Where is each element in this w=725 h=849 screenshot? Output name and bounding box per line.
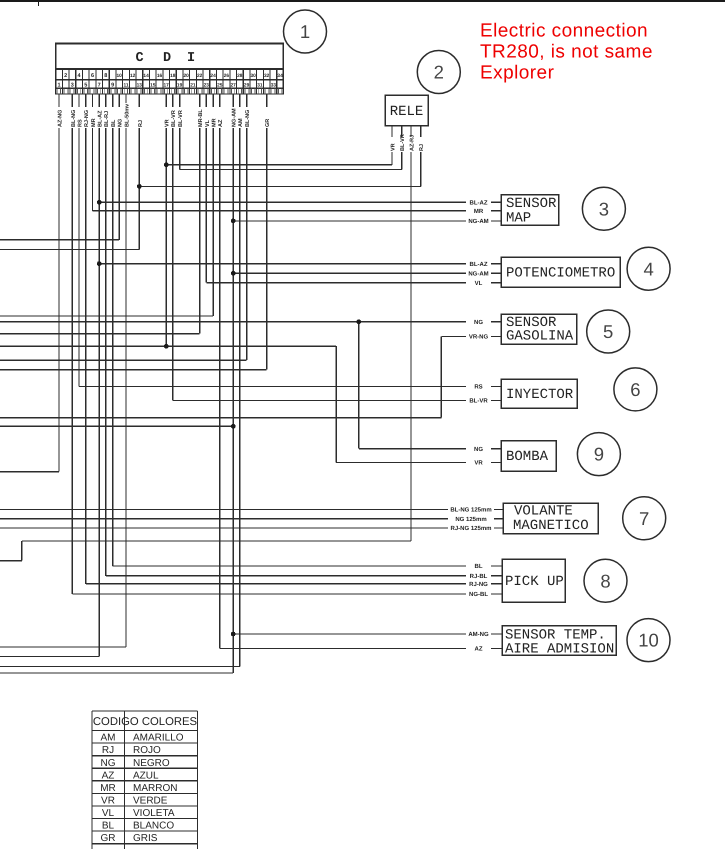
svg-text:RJ: RJ xyxy=(138,120,144,127)
svg-text:AM-NG: AM-NG xyxy=(468,631,489,638)
svg-text:MR-BL: MR-BL xyxy=(198,109,204,127)
svg-text:MR: MR xyxy=(474,208,484,215)
svg-text:VIOLETA: VIOLETA xyxy=(133,808,175,819)
svg-text:24: 24 xyxy=(210,73,216,79)
svg-text:VOLANTE: VOLANTE xyxy=(514,504,573,520)
svg-text:BL-AZ: BL-AZ xyxy=(470,200,488,207)
svg-text:22: 22 xyxy=(197,73,203,79)
svg-text:AZ: AZ xyxy=(102,770,115,781)
svg-text:MAGNETICO: MAGNETICO xyxy=(513,518,589,534)
svg-text:27: 27 xyxy=(231,83,237,89)
svg-text:AM: AM xyxy=(238,118,244,127)
svg-text:3: 3 xyxy=(71,83,74,89)
svg-text:VL: VL xyxy=(475,280,483,287)
svg-text:34: 34 xyxy=(277,73,283,79)
svg-text:NG: NG xyxy=(474,319,483,326)
svg-text:MARRON: MARRON xyxy=(133,783,177,794)
svg-text:RS: RS xyxy=(474,384,482,391)
svg-text:MR: MR xyxy=(91,118,97,127)
svg-text:MAP: MAP xyxy=(506,210,531,226)
svg-text:19: 19 xyxy=(177,83,183,89)
svg-text:BLANCO: BLANCO xyxy=(133,821,174,832)
svg-text:32: 32 xyxy=(264,73,270,79)
svg-text:MR: MR xyxy=(100,783,116,794)
svg-text:GR: GR xyxy=(101,833,116,844)
svg-text:BL: BL xyxy=(102,821,115,832)
svg-text:2: 2 xyxy=(434,62,444,83)
svg-text:7: 7 xyxy=(639,508,649,529)
svg-text:GR: GR xyxy=(265,119,271,127)
svg-text:NEGRO: NEGRO xyxy=(133,758,170,769)
svg-text:VR-NG: VR-NG xyxy=(469,334,489,341)
svg-text:AIRE ADMISION: AIRE ADMISION xyxy=(505,641,614,657)
svg-text:4: 4 xyxy=(643,258,653,279)
svg-text:12: 12 xyxy=(130,73,136,79)
svg-text:NG: NG xyxy=(474,446,483,453)
svg-text:GASOLINA: GASOLINA xyxy=(506,329,574,345)
svg-text:1: 1 xyxy=(300,21,310,42)
svg-text:BL-50mv: BL-50mv xyxy=(124,103,130,127)
svg-text:9: 9 xyxy=(111,83,114,89)
svg-text:NG: NG xyxy=(101,758,116,769)
svg-text:AZ: AZ xyxy=(218,119,224,127)
svg-text:NG-BL: NG-BL xyxy=(469,591,488,598)
svg-text:BL-AZ: BL-AZ xyxy=(98,110,104,127)
svg-text:BL-NG: BL-NG xyxy=(71,110,77,127)
svg-text:NG-AM: NG-AM xyxy=(232,108,238,127)
svg-text:VR: VR xyxy=(165,119,171,127)
svg-text:31: 31 xyxy=(257,83,263,89)
svg-text:15: 15 xyxy=(150,83,156,89)
svg-text:RJ-NG: RJ-NG xyxy=(84,110,90,127)
svg-text:21: 21 xyxy=(190,83,196,89)
svg-text:BL-VR: BL-VR xyxy=(400,134,406,151)
svg-text:AM: AM xyxy=(101,733,116,744)
svg-text:1: 1 xyxy=(57,83,60,89)
svg-text:30: 30 xyxy=(251,73,257,79)
svg-text:17: 17 xyxy=(164,83,170,89)
svg-text:AZ: AZ xyxy=(475,646,483,653)
svg-text:GRIS: GRIS xyxy=(133,833,158,844)
svg-text:VR: VR xyxy=(390,143,396,151)
svg-text:VR: VR xyxy=(474,460,483,467)
svg-text:NG: NG xyxy=(118,119,124,127)
svg-text:25: 25 xyxy=(217,83,223,89)
svg-text:6: 6 xyxy=(91,73,94,79)
svg-text:BL-NG: BL-NG xyxy=(245,110,251,127)
svg-text:28: 28 xyxy=(237,73,243,79)
svg-text:BL-AZ: BL-AZ xyxy=(470,261,488,268)
svg-text:2: 2 xyxy=(64,73,67,79)
svg-text:13: 13 xyxy=(137,83,143,89)
svg-text:PICK UP: PICK UP xyxy=(505,574,564,590)
svg-text:RS: RS xyxy=(78,119,84,127)
svg-text:CODIGO COLORES: CODIGO COLORES xyxy=(93,716,198,728)
svg-text:8: 8 xyxy=(104,73,107,79)
svg-text:POTENCIOMETRO: POTENCIOMETRO xyxy=(506,266,615,282)
svg-text:MR: MR xyxy=(212,118,218,127)
svg-text:8: 8 xyxy=(600,570,610,591)
svg-text:BL-NG 125mm: BL-NG 125mm xyxy=(450,507,491,514)
svg-text:5: 5 xyxy=(84,83,87,89)
svg-text:BL: BL xyxy=(111,119,117,127)
svg-text:26: 26 xyxy=(224,73,230,79)
svg-text:RELE: RELE xyxy=(390,104,424,120)
svg-text:Electric connectionTR280, is n: Electric connectionTR280, is not sameExp… xyxy=(480,21,653,84)
svg-text:VERDE: VERDE xyxy=(133,796,168,807)
svg-text:BL-VR: BL-VR xyxy=(178,110,184,127)
svg-text:NG-AM: NG-AM xyxy=(468,218,488,225)
svg-text:10: 10 xyxy=(117,73,123,79)
svg-text:33: 33 xyxy=(271,83,277,89)
svg-text:3: 3 xyxy=(599,198,609,219)
svg-text:AZ-RJ: AZ-RJ xyxy=(409,135,415,151)
svg-text:VL: VL xyxy=(205,119,211,127)
svg-text:RJ: RJ xyxy=(419,144,425,151)
svg-text:NG-AM: NG-AM xyxy=(468,270,488,277)
svg-text:RJ-NG: RJ-NG xyxy=(469,581,488,588)
svg-text:VR: VR xyxy=(101,796,115,807)
svg-text:ROJO: ROJO xyxy=(133,745,161,756)
svg-text:10: 10 xyxy=(638,630,659,651)
svg-text:INYECTOR: INYECTOR xyxy=(506,387,574,403)
svg-text:16: 16 xyxy=(157,73,163,79)
svg-text:NG 125mm: NG 125mm xyxy=(455,516,486,523)
svg-text:BL-VR: BL-VR xyxy=(171,110,177,127)
svg-text:AZ-NG: AZ-NG xyxy=(57,110,63,127)
svg-text:VL: VL xyxy=(102,808,115,819)
svg-text:14: 14 xyxy=(143,73,149,79)
svg-text:18: 18 xyxy=(170,73,176,79)
svg-text:BL: BL xyxy=(475,563,483,570)
svg-text:4: 4 xyxy=(77,73,81,79)
svg-text:CDI: CDI xyxy=(135,51,195,66)
svg-text:20: 20 xyxy=(184,73,190,79)
svg-text:AMARILLO: AMARILLO xyxy=(133,733,184,744)
svg-text:6: 6 xyxy=(630,379,640,400)
svg-text:BL-RJ: BL-RJ xyxy=(104,111,110,127)
svg-text:29: 29 xyxy=(244,83,250,89)
svg-text:23: 23 xyxy=(204,83,210,89)
svg-text:7: 7 xyxy=(98,83,101,89)
svg-text:AZUL: AZUL xyxy=(133,770,159,781)
svg-text:5: 5 xyxy=(603,321,613,342)
svg-text:RJ-BL: RJ-BL xyxy=(470,573,488,580)
svg-text:RJ: RJ xyxy=(102,745,114,756)
svg-text:11: 11 xyxy=(123,83,128,89)
svg-text:9: 9 xyxy=(594,444,604,465)
svg-text:RJ-NG 125mm: RJ-NG 125mm xyxy=(450,525,491,532)
svg-text:BOMBA: BOMBA xyxy=(506,449,549,465)
svg-text:BL-VR: BL-VR xyxy=(469,398,488,405)
